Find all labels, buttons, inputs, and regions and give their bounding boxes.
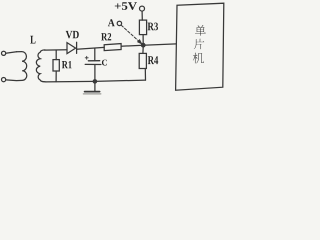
wire R1 bottom lead — [55, 71, 57, 82]
label L — [30, 36, 35, 44]
terminal T2 (bottom-left input) — [2, 78, 6, 82]
label R1 — [62, 61, 72, 68]
wire R3 to junction — [142, 35, 144, 43]
MCU box (single-chip computer) — [176, 3, 224, 90]
terminal T1 (top-left input) — [2, 51, 6, 55]
wire R1 top lead — [55, 50, 57, 60]
wire junction to MCU box — [143, 44, 176, 45]
label VD — [66, 31, 79, 38]
transformer secondary winding — [36, 50, 45, 82]
label R3 — [148, 23, 158, 31]
resistor R3 — [139, 20, 146, 34]
capacitor C plates — [88, 60, 99, 62]
wire junction to R4 — [142, 47, 144, 53]
wire top rail: R2 to junction — [121, 44, 143, 47]
diode VD — [67, 43, 76, 54]
junction dot R3/R4 — [141, 43, 146, 48]
ground bar 2 — [83, 93, 100, 95]
label character 单 (dan) — [195, 25, 206, 36]
label character 片 (pian) — [194, 39, 204, 49]
inductor L primary winding — [6, 52, 27, 81]
label R4 — [148, 56, 158, 64]
label C — [102, 60, 107, 66]
wire +5V to R3 — [141, 11, 143, 20]
wire top rail: secondary to diode anode — [45, 49, 68, 51]
label character 机 (ji) — [193, 53, 204, 64]
dashed probe line from A — [121, 25, 139, 41]
wire capacitor C bottom lead — [94, 65, 96, 82]
wire R4 bottom lead — [144, 69, 146, 81]
arrowhead of probe line at junction — [137, 39, 143, 45]
resistor R1 — [53, 60, 59, 71]
junction dot at C bottom — [93, 79, 98, 84]
label A — [108, 19, 115, 26]
resistor R2 — [104, 44, 121, 51]
label R2 — [101, 33, 111, 40]
capacitor + polarity mark — [85, 56, 88, 59]
ground bar 1 — [85, 91, 100, 93]
wire bottom rail — [45, 80, 146, 82]
resistor R4 — [139, 53, 146, 68]
ground stub — [94, 81, 96, 91]
wire capacitor C top lead — [94, 48, 96, 61]
node A terminal circle — [117, 21, 121, 25]
terminal +5V circle — [140, 6, 145, 11]
wire T1 to primary winding — [6, 52, 17, 53]
label +5V — [115, 2, 137, 10]
wire top rail: diode cathode to R2 — [77, 47, 105, 49]
